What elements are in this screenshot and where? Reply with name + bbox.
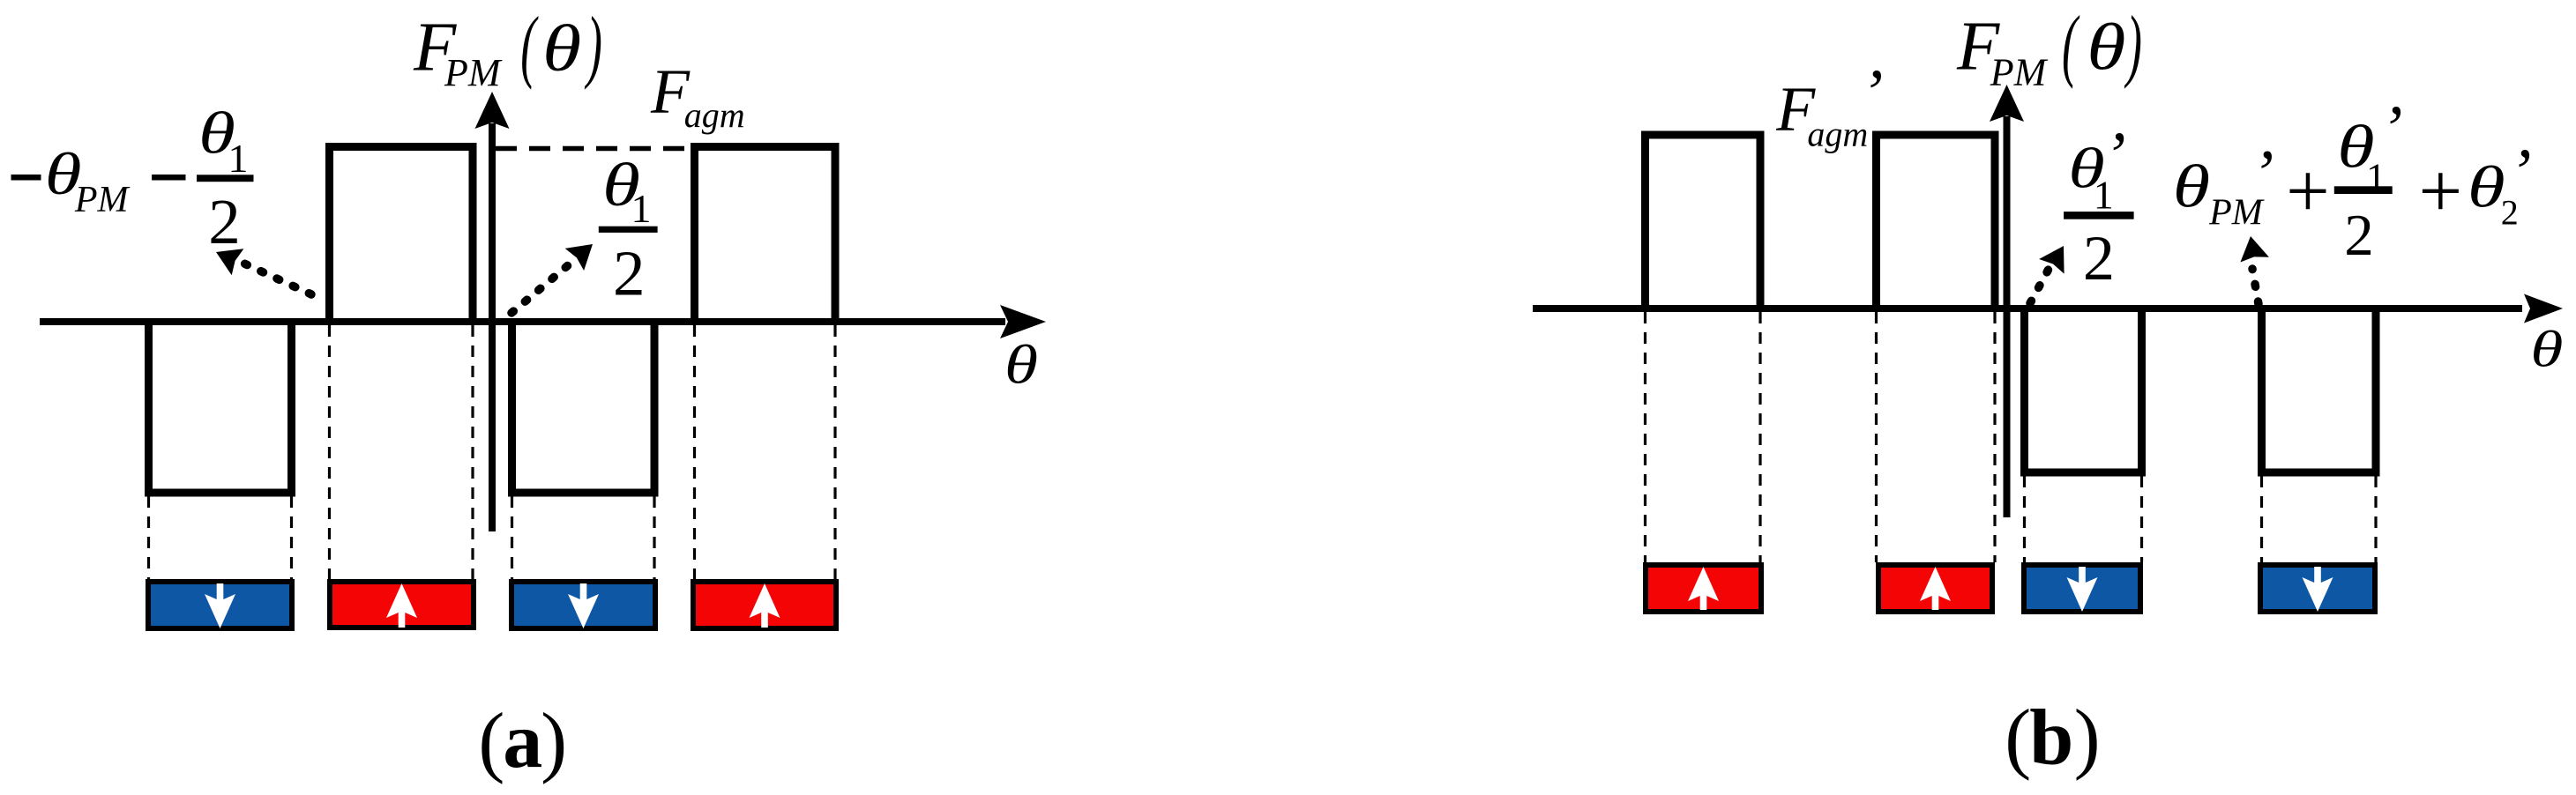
svg-text:agm: agm <box>1807 115 1868 154</box>
svg-text:+: + <box>2286 149 2330 234</box>
svg-text:PM: PM <box>444 51 503 94</box>
svg-text:2: 2 <box>613 238 646 309</box>
svg-text:): ) <box>541 698 567 785</box>
svg-text:(: ( <box>520 1 538 91</box>
svg-text:(: ( <box>478 698 504 785</box>
svg-text:a: a <box>503 697 542 784</box>
svg-text:’: ’ <box>1861 56 1883 130</box>
svg-text:PM: PM <box>74 180 131 220</box>
svg-text:2: 2 <box>208 186 240 257</box>
svg-text:1: 1 <box>228 136 249 181</box>
svg-text:1: 1 <box>631 186 652 231</box>
svg-text:’: ’ <box>2509 136 2531 209</box>
svg-text:θ: θ <box>542 11 581 85</box>
svg-text:2: 2 <box>2344 203 2374 268</box>
svg-text:): ) <box>2124 0 2141 90</box>
svg-text:θ: θ <box>2173 152 2210 220</box>
svg-text:b: b <box>2029 694 2073 781</box>
svg-text:2: 2 <box>2083 223 2115 293</box>
svg-text:θ: θ <box>1004 335 1038 396</box>
svg-text:θ: θ <box>2530 321 2563 378</box>
svg-text:θ: θ <box>2468 154 2505 219</box>
svg-text:agm: agm <box>684 95 745 135</box>
svg-text:(: ( <box>2062 0 2079 90</box>
svg-text:1: 1 <box>2094 173 2114 218</box>
svg-text:PM: PM <box>1990 51 2049 94</box>
svg-text:+: + <box>2419 149 2463 234</box>
svg-text:’: ’ <box>2380 93 2402 166</box>
svg-text:’: ’ <box>2251 137 2274 211</box>
svg-text:(: ( <box>2005 695 2031 782</box>
svg-text:): ) <box>2074 695 2101 782</box>
svg-text:): ) <box>584 1 601 91</box>
svg-text:θ: θ <box>2087 10 2125 83</box>
